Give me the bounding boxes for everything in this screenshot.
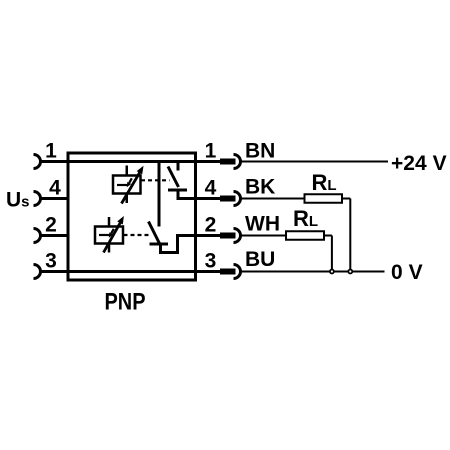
wire switch S2 output to pin 2 [161, 236, 222, 253]
svg-text:PNP: PNP [105, 289, 146, 316]
svg-text:3: 3 [205, 250, 217, 273]
svg-text:+24 V: +24 V [391, 152, 447, 175]
svg-text:2: 2 [205, 214, 217, 237]
sensor B1 adjustability arrow [122, 172, 141, 204]
socket pin 2 (left) [34, 229, 41, 243]
sensor body box U1 [68, 153, 196, 280]
wire BN (brown) to +24V [241, 161, 389, 163]
sensor B1 inner contact line [117, 184, 128, 186]
svg-text:4: 4 [205, 177, 217, 200]
wire WH drop to 0V [331, 236, 333, 272]
switch S1 blade [168, 167, 179, 188]
sensor B1 top stub [126, 166, 129, 176]
wire RL1 to drop [342, 198, 350, 200]
wire pin 3 rail (0V rail through box to right stub) [40, 270, 222, 273]
plug pin 4 (right) [220, 196, 236, 202]
sensor B2 top stub [108, 217, 111, 227]
sensor B2 inner actuation arrow [111, 229, 114, 234]
junction node WH/0V [330, 270, 334, 274]
wire BK drop to 0V [349, 199, 351, 272]
socket pin 1 (left) [34, 155, 41, 169]
load resistor RL2 [286, 231, 324, 240]
sensor B2 inner contact line [99, 234, 110, 236]
load resistor RL1 [305, 194, 343, 203]
svg-text:BU: BU [245, 248, 275, 271]
wire pin 2 (left stub) [40, 234, 70, 237]
socket pin 3 (left) [34, 265, 41, 279]
wire BK (black) [241, 198, 305, 200]
plug pin 1 (right) [220, 159, 236, 165]
wire BU (blue) to 0V [241, 271, 385, 273]
sensor B1 bottom stub [126, 194, 129, 204]
socket pin 4 (left) [34, 192, 41, 206]
plug pin 3 (right) [220, 269, 236, 275]
dashed actuation link B2 to switch S2 [124, 234, 151, 236]
svg-text:0 V: 0 V [391, 261, 423, 284]
wire pin 4 (left stub) [40, 197, 70, 200]
svg-text:1: 1 [45, 140, 57, 163]
proximity sensor element B1 (upper) body [113, 176, 141, 194]
branch wire from pin1 rail down to lower switch [158, 162, 161, 227]
switch S2 contact bar [150, 243, 169, 246]
svg-text:2: 2 [45, 214, 57, 237]
switch S1 contact bar [168, 189, 187, 192]
plug pin 2 (right) [220, 233, 236, 239]
junction node BK/0V [348, 270, 352, 274]
switch S2 (lower output contact) blade [149, 222, 160, 244]
svg-text:WH: WH [245, 213, 280, 236]
sensor B2 adjustability arrow [104, 222, 121, 252]
wire WH (white) [241, 235, 287, 237]
svg-text:1: 1 [205, 140, 217, 163]
svg-text:BN: BN [245, 140, 275, 163]
dashed actuation link B1 to switch S1 [141, 179, 170, 181]
sensor B2 bottom stub [108, 244, 111, 253]
wire RL2 to drop [324, 235, 332, 237]
svg-text:BK: BK [245, 176, 275, 199]
wire switch S1 output to pin 4 [178, 189, 221, 199]
sensor B1 inner actuation arrow [129, 178, 132, 183]
switch S1 (upper output contact) terminal from +V rail [177, 162, 180, 171]
wire pin 1 rail (+V rail through box to right stub) [40, 160, 222, 163]
svg-text:3: 3 [45, 250, 57, 273]
svg-text:4: 4 [49, 177, 61, 200]
proximity sensor element B2 (lower) body [95, 227, 123, 244]
